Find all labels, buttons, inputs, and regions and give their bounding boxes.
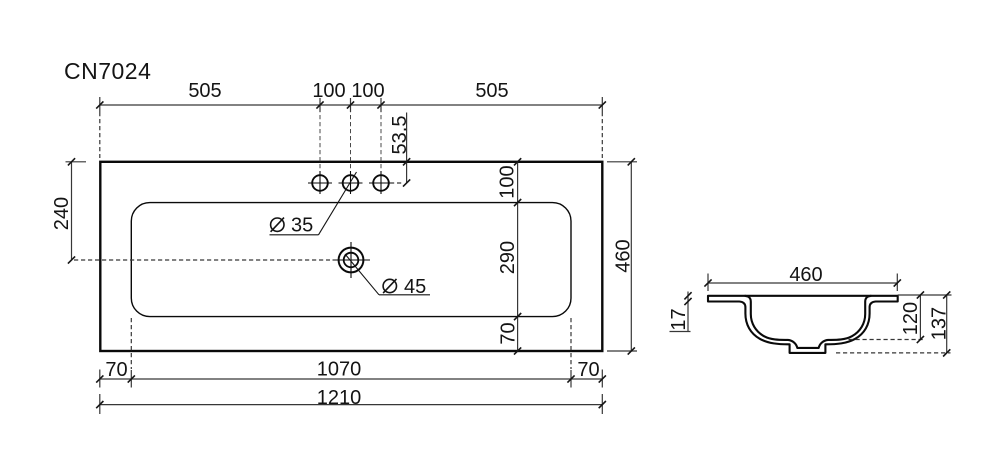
side view: basin section profile (outer): [708, 296, 898, 353]
svg-text:290: 290: [497, 241, 519, 274]
svg-text:70: 70: [577, 359, 599, 381]
svg-text:100: 100: [351, 80, 384, 102]
extension line right edge (dashed): [601, 112, 603, 158]
svg-text:100: 100: [497, 165, 519, 198]
svg-text:1070: 1070: [317, 359, 362, 381]
svg-text:100: 100: [312, 80, 345, 102]
extension lines bottom (solid stubs at outer corners): [100, 370, 603, 415]
svg-text:240: 240: [51, 197, 73, 230]
faucet hole middle: [339, 108, 363, 194]
svg-text:505: 505: [475, 80, 508, 102]
svg-text:70: 70: [497, 322, 519, 344]
side view: basin section profile (inner): [745, 296, 872, 348]
svg-text:53.5: 53.5: [389, 116, 411, 155]
svg-text:35: 35: [291, 215, 313, 237]
dashed reference line 120: [849, 339, 925, 341]
svg-text:CN7024: CN7024: [64, 58, 151, 84]
svg-text:505: 505: [188, 80, 221, 102]
extension line left edge (dashed): [99, 112, 101, 158]
dimension: 53.5: [390, 113, 407, 184]
dimension: 240: [66, 162, 87, 260]
centerline (dashed): [74, 259, 330, 261]
dashed reference line 137: [836, 352, 951, 354]
leader for diameter 35: [270, 234, 319, 236]
extension lines bottom (dashed at basin edges): [130, 318, 132, 369]
dimension: 120: [919, 295, 921, 340]
faucet hole left: [308, 108, 332, 194]
label diameter 35: [271, 218, 284, 232]
extension line top for 120/137: [898, 294, 952, 296]
top view: countertop outline: [100, 162, 602, 351]
dimension: 460 side view: [708, 274, 897, 292]
top view: basin opening: [131, 203, 571, 317]
dimension: 17: [670, 292, 691, 332]
svg-text:460: 460: [613, 239, 635, 272]
svg-text:17: 17: [668, 308, 690, 330]
dimension: top 505/100/100/505: [100, 97, 603, 112]
svg-text:1210: 1210: [317, 387, 362, 409]
svg-text:120: 120: [900, 302, 922, 335]
svg-text:70: 70: [105, 359, 127, 381]
dimension: 137: [946, 295, 948, 353]
faucet hole right: [369, 108, 393, 194]
dimension: 460 top view: [607, 162, 637, 351]
dimension: 100/290/70 vertical: [517, 162, 519, 351]
label diameter 45: [383, 279, 396, 293]
drain hole: [333, 242, 371, 278]
dimension: 1210: [100, 404, 603, 406]
leader for diameter 45: [379, 294, 430, 296]
svg-text:460: 460: [789, 264, 822, 286]
svg-text:137: 137: [929, 307, 951, 340]
dimension: 70/1070/70: [100, 378, 603, 380]
